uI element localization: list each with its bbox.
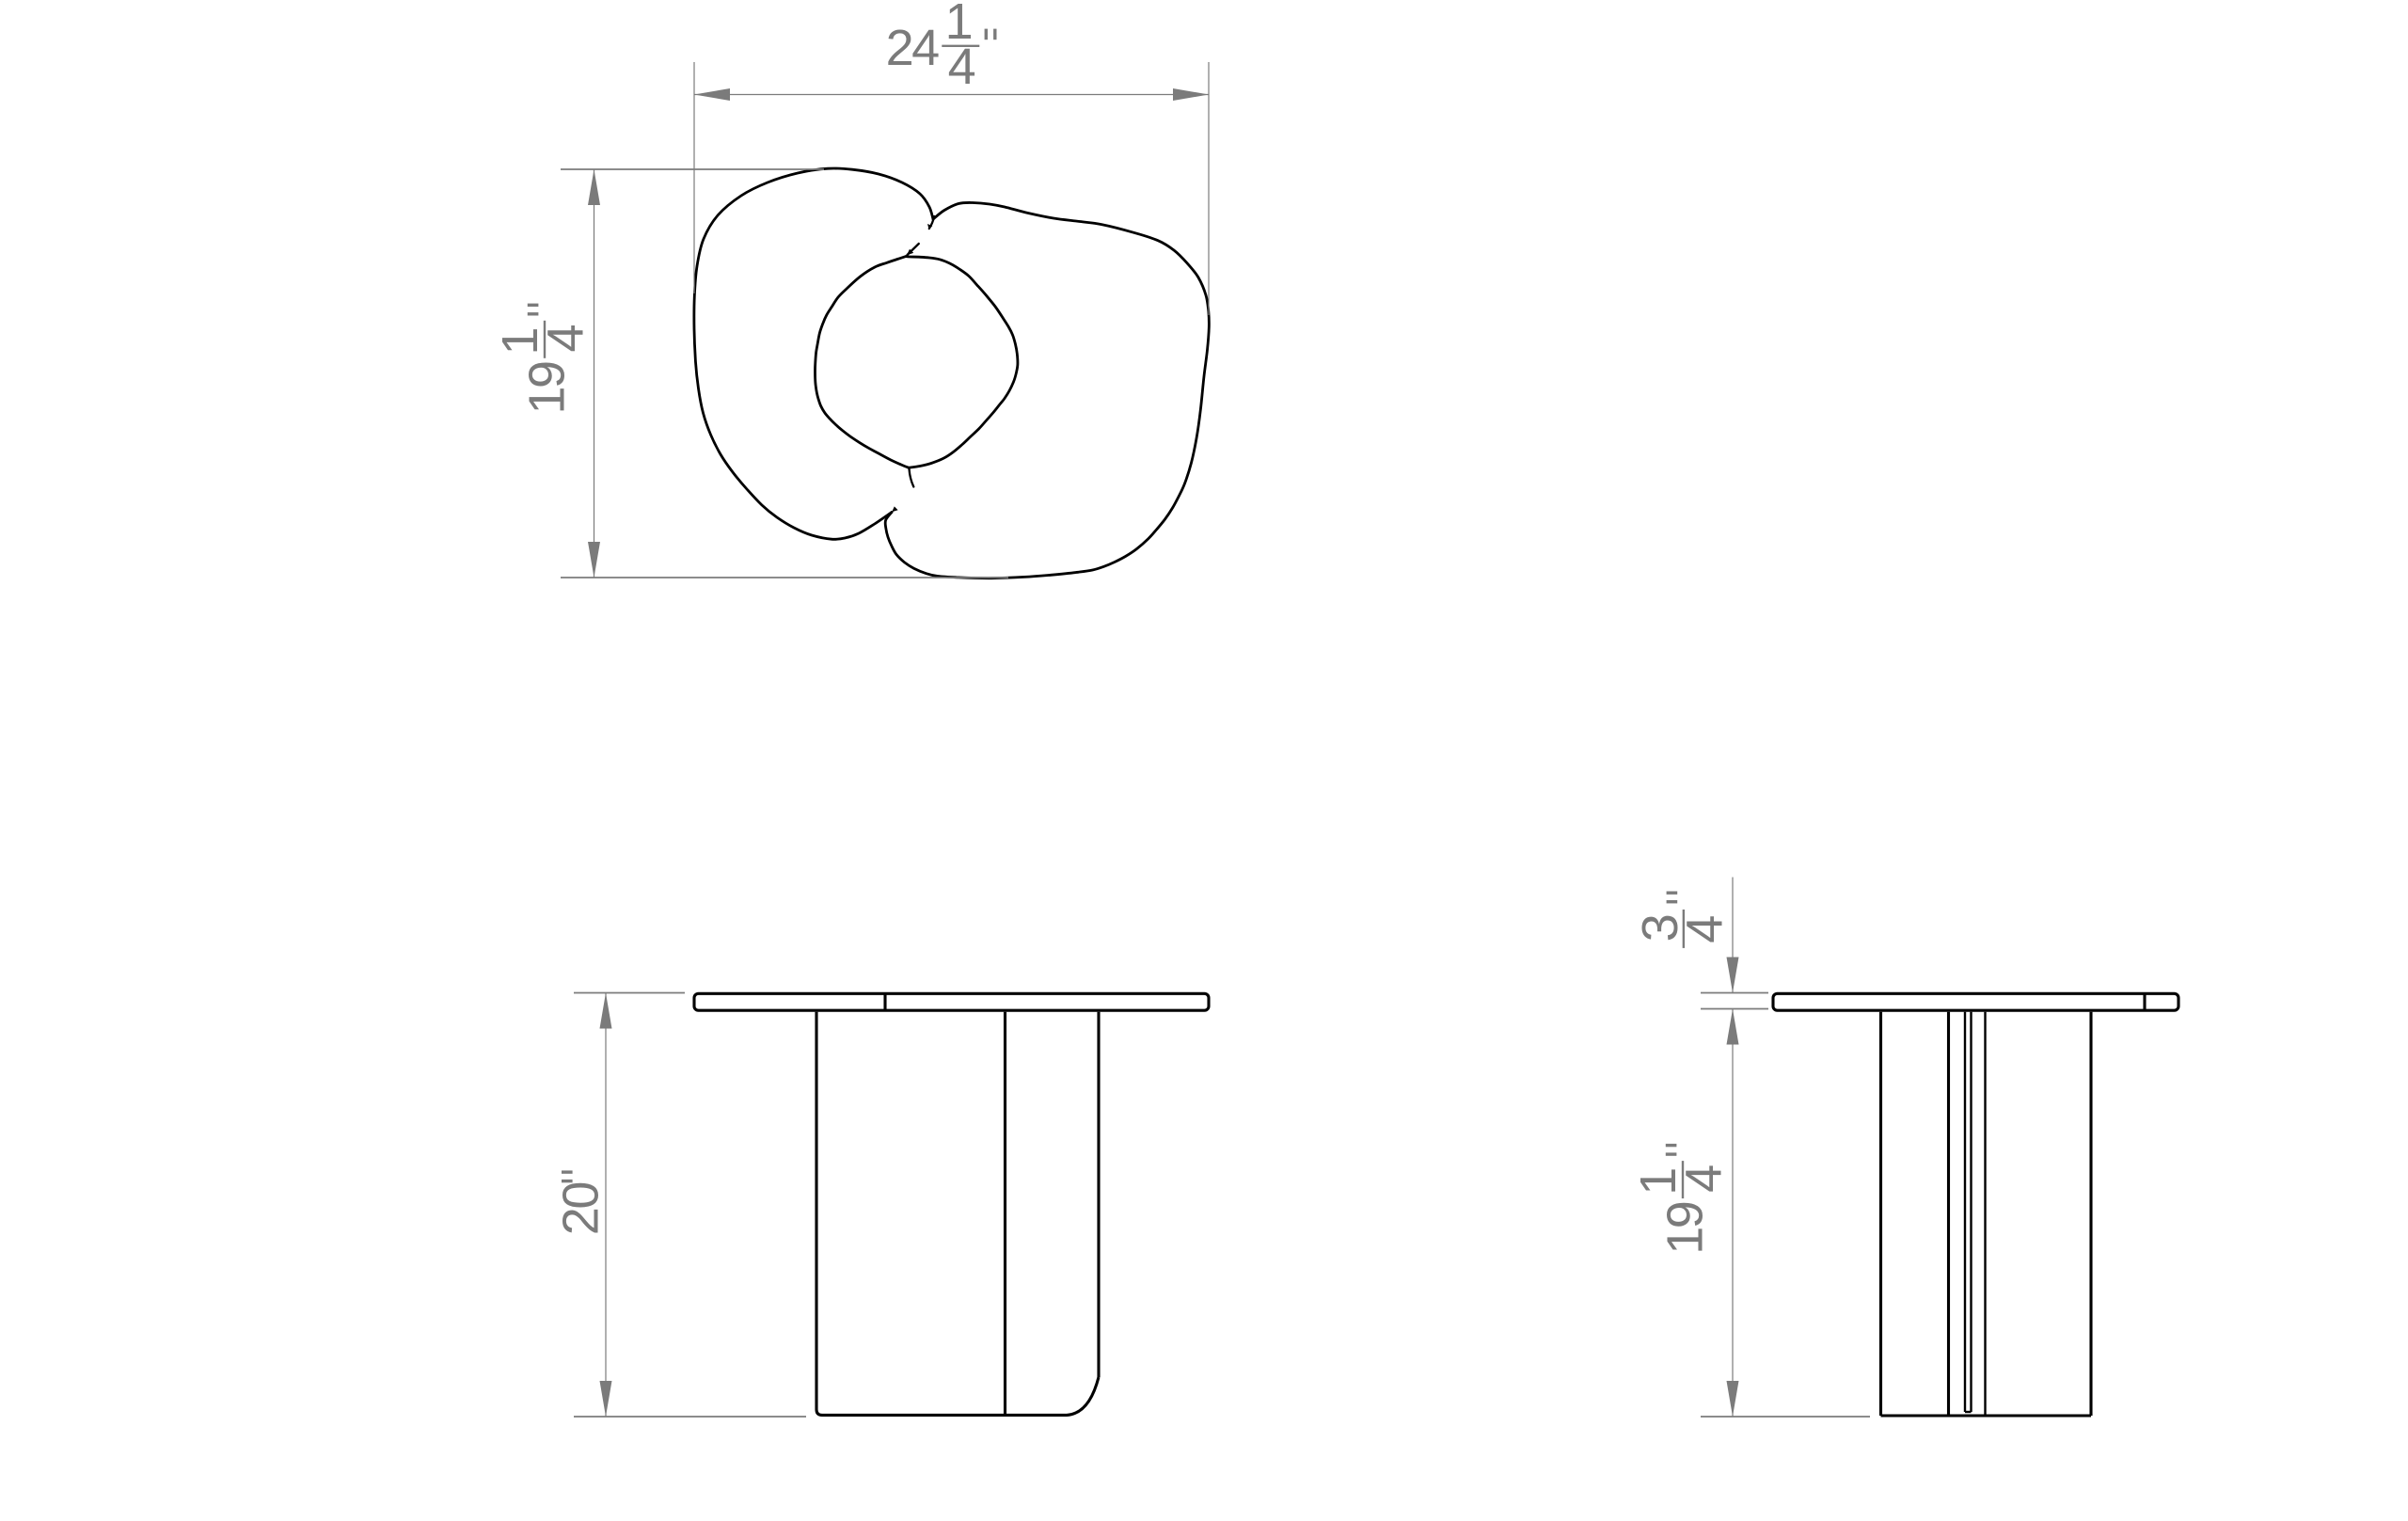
svg-text:19: 19 — [1656, 1202, 1713, 1255]
svg-text:4: 4 — [948, 39, 976, 95]
svg-text:20: 20 — [553, 1183, 610, 1236]
svg-text:4: 4 — [1677, 915, 1734, 943]
svg-text:19: 19 — [518, 362, 575, 415]
svg-text:4: 4 — [537, 324, 594, 352]
svg-text:4: 4 — [1675, 1165, 1732, 1193]
svg-text:24: 24 — [886, 20, 940, 76]
